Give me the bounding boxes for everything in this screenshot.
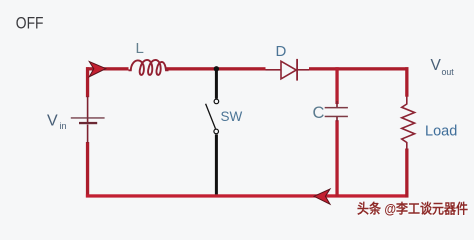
capacitor C1 lead lower — [336, 117, 338, 122]
diode D1 triangle — [281, 61, 296, 79]
svg-text:V: V — [47, 113, 58, 130]
capacitor C1 bottom plate — [325, 116, 348, 118]
wire capacitor branch lower — [335, 120, 338, 197]
switch SW bottom contact — [214, 129, 219, 134]
svg-text:in: in — [60, 121, 67, 131]
wire capacitor branch upper — [335, 67, 338, 104]
arrow current left (bottom) — [314, 189, 330, 204]
battery V1 short plate — [79, 122, 97, 124]
wire top (diode to right corner) — [309, 67, 409, 70]
wire bottom — [86, 194, 409, 197]
switch SW wire upper — [215, 68, 218, 99]
battery V1 lead lower — [87, 125, 89, 144]
svg-text:D: D — [276, 43, 287, 60]
diode D1 lead right — [298, 69, 309, 71]
wire top (left segment before inductor) — [86, 67, 129, 70]
switch SW blade — [206, 104, 216, 129]
switch SW junction dot — [214, 66, 219, 71]
svg-text:out: out — [442, 67, 455, 77]
arrow current right (top-left) — [89, 62, 106, 77]
diode D1 cathode bar — [296, 59, 298, 81]
battery V1 long plate — [71, 117, 105, 118]
capacitor C1 lead upper — [336, 101, 338, 108]
svg-text:OFF: OFF — [16, 15, 44, 33]
svg-text:L: L — [136, 40, 144, 57]
wire left vertical upper — [86, 67, 89, 97]
switch SW wire lower — [215, 134, 218, 194]
switch SW top contact — [214, 99, 219, 104]
svg-text:SW: SW — [221, 109, 243, 124]
svg-text:C: C — [313, 104, 325, 122]
wire right vertical lower — [405, 149, 408, 198]
svg-text:V: V — [431, 57, 442, 74]
inductor L1 coil — [129, 60, 169, 75]
resistor Load zigzag — [402, 97, 415, 150]
diode D1 lead left — [266, 69, 281, 71]
wire left vertical lower — [86, 142, 89, 198]
wire right vertical upper — [405, 67, 408, 97]
svg-text:Load: Load — [425, 124, 457, 140]
svg-text:头条 @李工谈元器件: 头条 @李工谈元器件 — [357, 201, 468, 217]
wire top (inductor to diode) — [167, 67, 266, 70]
capacitor C1 top plate — [325, 107, 348, 109]
battery V1 lead upper — [87, 96, 89, 123]
